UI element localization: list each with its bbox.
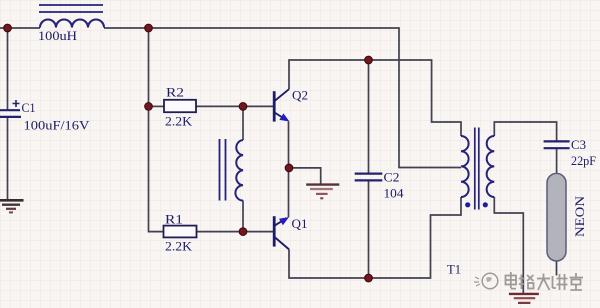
svg-text:2.2K: 2.2K: [165, 239, 193, 254]
svg-text:100uF/16V: 100uF/16V: [24, 117, 91, 132]
svg-text:C2: C2: [384, 170, 400, 185]
svg-text:104: 104: [384, 185, 405, 200]
svg-text:NEON: NEON: [573, 196, 587, 237]
svg-text:22pF: 22pF: [571, 153, 596, 168]
svg-text:R2: R2: [166, 85, 184, 100]
svg-text:T1: T1: [447, 261, 461, 276]
svg-text:R1: R1: [165, 212, 183, 227]
svg-text:C1: C1: [22, 100, 36, 115]
svg-text:Q2: Q2: [292, 88, 308, 103]
svg-text:C3: C3: [571, 137, 586, 152]
svg-text:100uH: 100uH: [38, 28, 77, 43]
svg-text:2.2K: 2.2K: [165, 114, 193, 129]
svg-text:Q1: Q1: [292, 216, 308, 231]
